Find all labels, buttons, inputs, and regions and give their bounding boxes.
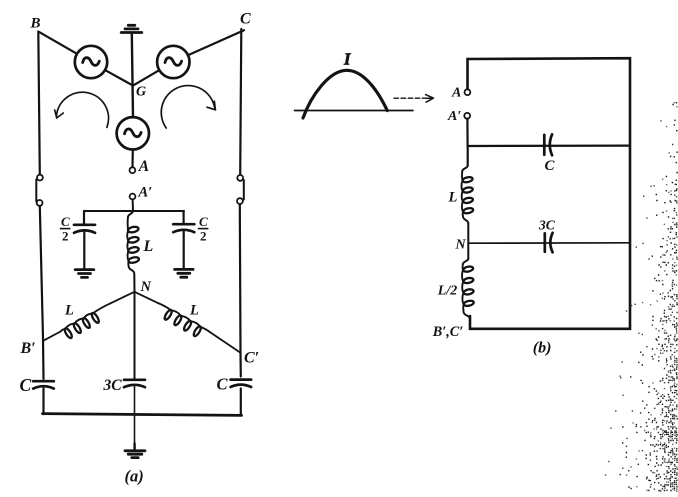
svg-text:A′: A′ [138,185,153,201]
svg-text:N: N [455,238,467,253]
svg-text:3C: 3C [538,218,556,233]
svg-text:A: A [451,86,461,101]
svg-text:B: B [30,16,41,32]
svg-text:A: A [138,158,149,175]
svg-text:2: 2 [62,229,69,244]
svg-text:N: N [140,279,152,295]
svg-text:(a): (a) [125,467,144,486]
svg-text:C: C [61,214,70,229]
svg-text:L: L [448,190,458,206]
svg-text:L/2: L/2 [437,284,457,299]
svg-text:2: 2 [200,229,207,244]
svg-text:A′: A′ [447,109,461,124]
svg-text:C: C [199,214,208,229]
svg-text:B′: B′ [20,340,36,357]
svg-text:I: I [343,50,351,69]
svg-text:G: G [136,85,146,100]
svg-text:C: C [545,158,556,174]
svg-text:(b): (b) [533,340,552,357]
svg-text:C′: C′ [244,350,259,367]
svg-text:L: L [143,238,154,255]
svg-text:L: L [189,303,199,319]
svg-text:C: C [217,375,229,394]
svg-text:3C: 3C [103,377,123,394]
svg-text:C: C [20,375,32,395]
svg-text:B′,C′: B′,C′ [432,324,463,340]
svg-text:C: C [240,11,251,28]
svg-text:L: L [64,303,74,319]
